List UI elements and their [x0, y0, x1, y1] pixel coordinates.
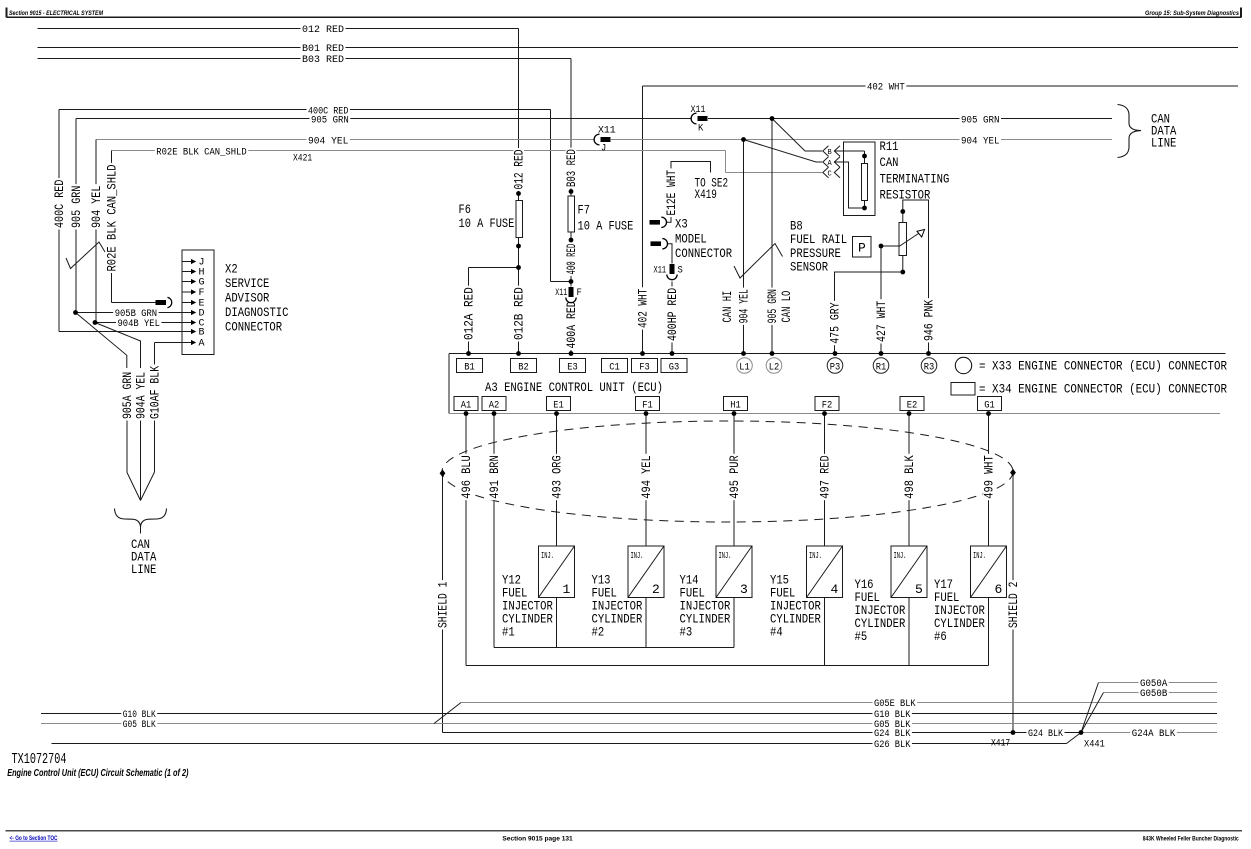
label 904 YEL right: [960, 136, 1002, 147]
injector Y15 box: [807, 546, 843, 598]
wire G05E diag: [434, 703, 461, 724]
svg-text:#3: #3: [680, 625, 693, 640]
wire 905 GRN: [76, 118, 1112, 120]
wire 904A YEL lower: [140, 419, 142, 500]
R11 resistor stub: [864, 201, 866, 209]
svg-text:F6: F6: [459, 202, 471, 217]
label 905 GRN right: [960, 115, 1002, 126]
wire 498 BLK: [908, 414, 910, 547]
vlabel 905 GRN: [71, 184, 82, 229]
wire E12E WHT / TO SE2: [667, 162, 711, 223]
svg-text:E2: E2: [907, 400, 918, 411]
svg-text:498 BLK: 498 BLK: [902, 455, 917, 499]
ECU pin box E3: [560, 359, 586, 373]
wire F7 chain: [570, 187, 572, 196]
label 904 YEL: [307, 136, 350, 147]
dot X441: [1079, 730, 1084, 735]
header rule: [7, 16, 1242, 18]
dot ECU bottom at 556.5: [554, 411, 559, 416]
vlabel B03 RED (above F7): [566, 148, 577, 189]
vlabel SHIELD 2: [1008, 580, 1019, 629]
svg-text:400C RED: 400C RED: [52, 179, 67, 228]
vlabel R02E BLK CAN_SHLD: [106, 163, 117, 273]
svg-text:R02E BLK CAN_SHLD: R02E BLK CAN_SHLD: [105, 164, 120, 271]
dot F7 top: [569, 189, 574, 194]
dot ECU top at 743.5: [741, 351, 746, 356]
dot ECU top at 642.5: [640, 351, 645, 356]
wire 494 YEL: [645, 414, 647, 547]
svg-text:X3: X3: [675, 217, 688, 232]
dot F7 bottom: [569, 238, 574, 243]
ECU pin circle R3: [921, 358, 937, 374]
ECU pin box C1: [602, 359, 628, 373]
dot ECU top at 518.5: [516, 351, 521, 356]
svg-text:Group 15: Sub-System Diagnosti: Group 15: Sub-System Diagnostics: [1145, 10, 1239, 17]
svg-text:L1: L1: [739, 362, 750, 373]
svg-text:905 GRN: 905 GRN: [961, 114, 1000, 126]
R11 pin C: [823, 167, 829, 178]
wire inj2 bottom: [645, 598, 647, 648]
svg-text:RESISTOR: RESISTOR: [880, 188, 931, 203]
svg-text:SHIELD 2: SHIELD 2: [1006, 582, 1021, 628]
vlabel 499 WHT: [983, 454, 994, 500]
svg-text:SENSOR: SENSOR: [790, 260, 828, 275]
B8 resistor: [899, 223, 907, 256]
connector X11 J: [594, 138, 611, 141]
svg-text:#1: #1: [502, 625, 515, 640]
wire X2-D 905B GRN: [76, 312, 193, 314]
B8 P box: [853, 237, 872, 258]
dashed cable ellipse: [442, 421, 1013, 522]
wire G05E BLK: [461, 702, 1217, 704]
cable mark middle: [734, 244, 783, 279]
ECU pin box H1: [724, 397, 748, 411]
ECU pin box F1: [636, 397, 660, 411]
ECU pin box G1: [978, 397, 1002, 411]
vlabel 400C RED: [54, 178, 65, 229]
injector Y14 box: [716, 546, 752, 598]
brace CAN DATA LINE left: [115, 509, 167, 528]
svg-text:INJ.: INJ.: [809, 551, 822, 561]
svg-text:INJ.: INJ.: [541, 551, 554, 561]
svg-text:B03 RED: B03 RED: [564, 149, 579, 187]
label G05E BLK right: [873, 699, 918, 710]
connector X11 S: [671, 264, 674, 281]
svg-text:LINE: LINE: [1151, 136, 1177, 151]
wire X2-B 400C: [59, 331, 192, 333]
svg-text:B: B: [828, 149, 832, 157]
fuse F7 body: [568, 196, 574, 232]
svg-text:5: 5: [915, 582, 923, 597]
dot R11 top: [862, 154, 867, 159]
dot ECU top at 881: [879, 351, 884, 356]
svg-text:904A YEL: 904A YEL: [134, 372, 149, 419]
label G24 BLK right: [873, 729, 912, 740]
svg-text:G1: G1: [984, 400, 995, 411]
svg-text:P3: P3: [830, 362, 841, 373]
wire 493 ORG: [556, 414, 558, 547]
fuse F6 body: [516, 201, 522, 238]
R11 pin A: [823, 157, 829, 168]
label G05 BLK left: [121, 720, 157, 731]
svg-text:SERVICE: SERVICE: [225, 276, 270, 291]
svg-text:4: 4: [831, 582, 839, 597]
B8 arrow: [899, 231, 923, 247]
ECU pin box A2: [482, 397, 506, 411]
svg-text:R3: R3: [924, 362, 935, 373]
wire X3 pin2 to X11 S: [668, 244, 673, 264]
label G24A BLK: [1130, 729, 1177, 740]
dot 905 junction: [770, 116, 775, 121]
label G050A: [1139, 679, 1169, 690]
ECU pin box E2: [900, 397, 924, 411]
svg-text:F: F: [577, 287, 582, 299]
shield1 diamond: [440, 470, 446, 478]
svg-text:LINE: LINE: [131, 562, 157, 577]
svg-text:A1: A1: [461, 400, 472, 411]
wire inj4 bottom: [824, 598, 826, 666]
svg-text:F7: F7: [578, 203, 590, 218]
R11 wire A internal: [835, 162, 865, 208]
svg-text:K: K: [698, 123, 704, 135]
svg-text:F: F: [199, 288, 205, 299]
wire X2-C 904B YEL: [95, 322, 192, 324]
legend X33 circle: [955, 357, 971, 373]
wire X2-A G10AF: [155, 342, 193, 344]
wire G24A BLK: [1081, 732, 1217, 734]
dot ECU bottom at 734: [732, 411, 737, 416]
svg-text:904 YEL: 904 YEL: [308, 135, 348, 147]
svg-text:H1: H1: [730, 400, 741, 411]
dot 904B junction: [93, 320, 98, 325]
svg-text:946 PNK: 946 PNK: [922, 300, 937, 341]
label 904B YEL: [116, 319, 161, 330]
svg-text:1: 1: [563, 582, 571, 597]
svg-text:#5: #5: [855, 629, 868, 644]
svg-text:X419: X419: [695, 187, 717, 202]
svg-text:499 WHT: 499 WHT: [982, 455, 997, 499]
dot F6 top: [516, 191, 521, 196]
ECU pin circle P3: [827, 358, 843, 374]
wire G10 BLK: [41, 713, 1217, 715]
wire 402 WHT top: [643, 85, 1239, 87]
svg-text:TX1072704: TX1072704: [12, 751, 67, 768]
ECU pin circle L2: [766, 358, 782, 374]
R11 box: [844, 142, 876, 216]
svg-text:904 YEL: 904 YEL: [961, 135, 1000, 147]
wire G26 BLK: [52, 743, 1067, 745]
wire 904A YEL diag: [95, 323, 141, 369]
ECU pin box G3: [661, 359, 687, 373]
injector Y17 box: [971, 546, 1007, 598]
label 905B GRN: [113, 309, 158, 320]
svg-text:905 GRN: 905 GRN: [765, 289, 780, 323]
connector X3 pin2: [651, 241, 662, 246]
label G050B: [1139, 689, 1169, 700]
header left tick: [6, 7, 8, 17]
svg-text:<- Go to Section TOC: <- Go to Section TOC: [10, 836, 59, 842]
ECU pin box E1: [547, 397, 571, 411]
svg-text:905 GRN: 905 GRN: [69, 186, 84, 228]
B8 wiper wire: [881, 245, 899, 247]
header right tick: [1240, 7, 1242, 17]
vlabel 493 ORG: [551, 454, 562, 500]
dot B8 top: [900, 209, 905, 214]
wire SHIELD 2: [1012, 473, 1014, 733]
ECU pin circle R1: [873, 358, 889, 374]
svg-text:012 RED: 012 RED: [302, 24, 344, 36]
svg-text:6: 6: [995, 582, 1003, 597]
wire G24 BLK: [443, 732, 1082, 734]
legend X34 rect: [951, 383, 975, 396]
dot ECU top at 928.5: [926, 351, 931, 356]
svg-text:INJ.: INJ.: [894, 551, 907, 561]
svg-text:L2: L2: [769, 362, 780, 373]
svg-text:C1: C1: [609, 362, 620, 373]
label 400C RED: [307, 106, 350, 117]
vlabel G10AF BLK: [149, 364, 160, 420]
svg-text:493 ORG: 493 ORG: [550, 455, 565, 498]
X2 pin arrows J-A: [182, 261, 192, 263]
svg-text:B1: B1: [464, 362, 475, 373]
ECU pin box F2: [815, 397, 839, 411]
ECU strip outline: [449, 353, 1226, 355]
dot 904 junction: [741, 137, 746, 142]
bus upper (A2): [494, 647, 734, 649]
svg-text:B03 RED: B03 RED: [302, 54, 344, 66]
svg-text:400HP RED: 400HP RED: [665, 288, 680, 341]
svg-text:INJ.: INJ.: [631, 551, 644, 561]
svg-text:R02E BLK CAN_SHLD: R02E BLK CAN_SHLD: [156, 147, 246, 159]
label 012 RED: [301, 25, 346, 36]
vlabel 497 RED: [819, 454, 830, 500]
svg-text:G3: G3: [669, 362, 680, 373]
svg-text:Section 9015 page 131: Section 9015 page 131: [502, 835, 573, 842]
wire 905A GRN diag: [76, 313, 127, 369]
svg-text:G24A BLK: G24A BLK: [1132, 728, 1176, 740]
ECU pin box B1: [457, 359, 483, 373]
svg-text:R1: R1: [876, 362, 887, 373]
label 905 GRN: [310, 115, 351, 126]
svg-text:Engine Control Unit (ECU) Circ: Engine Control Unit (ECU) Circuit Schema…: [7, 768, 188, 779]
vlabel 494 YEL: [641, 454, 652, 500]
svg-text:E12E WHT: E12E WHT: [664, 170, 679, 216]
cable mark left: [66, 242, 105, 269]
svg-text:012A RED: 012A RED: [462, 287, 477, 340]
B8 top wire: [903, 200, 929, 354]
svg-text:427 WHT: 427 WHT: [874, 301, 889, 342]
dot ECU bottom at 909: [907, 411, 912, 416]
svg-text:DIAGNOSTIC: DIAGNOSTIC: [225, 305, 289, 320]
dot 905B junction: [73, 310, 78, 315]
X2 box: [182, 250, 214, 355]
wire SHIELD 1: [442, 472, 444, 733]
svg-text:= X33 ENGINE CONNECTOR (ECU) C: = X33 ENGINE CONNECTOR (ECU) CONNECTOR: [979, 359, 1227, 374]
svg-text:X2: X2: [225, 262, 238, 277]
svg-text:904B YEL: 904B YEL: [118, 318, 160, 330]
wire 400C RED: [59, 109, 551, 111]
dot ECU top at 835: [833, 351, 838, 356]
injector Y16 box: [891, 546, 927, 598]
B8 bottom wire: [835, 256, 903, 354]
wire R11 A diag: [744, 140, 823, 163]
label G10 BLK right: [873, 710, 912, 721]
vlabel 905A GRN: [122, 370, 133, 420]
svg-text:012 RED: 012 RED: [512, 149, 527, 189]
dot ECU bottom at 824.5: [822, 411, 827, 416]
vlabel 427 WHT: [876, 299, 887, 343]
dot B8 wiper: [879, 244, 884, 249]
shield2 diamond: [1010, 469, 1016, 477]
svg-text:= X34 ENGINE CONNECTOR (ECU) C: = X34 ENGINE CONNECTOR (ECU) CONNECTOR: [979, 382, 1227, 397]
brace CAN DATA LINE right: [1118, 105, 1142, 158]
svg-text:A2: A2: [489, 400, 500, 411]
dot ECU bottom at 494: [492, 411, 497, 416]
R11 resistor: [862, 164, 868, 201]
vlabel 475 GRY: [829, 301, 840, 345]
svg-text:S: S: [678, 265, 683, 277]
svg-text:3: 3: [740, 582, 748, 597]
label B03 RED: [301, 55, 346, 66]
svg-text:CONNECTOR: CONNECTOR: [225, 319, 282, 334]
svg-text:497 RED: 497 RED: [818, 455, 833, 499]
svg-text:X11: X11: [555, 287, 567, 299]
svg-text:F2: F2: [822, 400, 833, 411]
svg-text:843K Wheeled Feller Buncher Di: 843K Wheeled Feller Buncher Diagnostic: [1143, 835, 1239, 842]
svg-text:905 GRN: 905 GRN: [311, 114, 349, 126]
svg-text:2: 2: [652, 582, 660, 597]
vlabel 904 YEL (L1): [738, 288, 749, 325]
dot X417: [1011, 730, 1016, 735]
X2 E connector symbol: [156, 300, 167, 305]
svg-text:CAN HI: CAN HI: [720, 291, 735, 323]
svg-text:400A RED: 400A RED: [564, 301, 579, 348]
svg-text:G050B: G050B: [1140, 688, 1167, 700]
svg-text:A3 ENGINE CONTROL UNIT (ECU): A3 ENGINE CONTROL UNIT (ECU): [485, 380, 663, 395]
svg-text:C: C: [828, 170, 832, 178]
label 402 WHT: [866, 82, 907, 93]
wire inj3 bottom: [733, 598, 735, 648]
vlabel 495 PUR: [729, 454, 740, 500]
vlabel 400 RED: [566, 242, 577, 276]
footer rule: [6, 830, 1242, 832]
wire 402 WHT to F3: [642, 285, 644, 354]
svg-text:#4: #4: [770, 625, 783, 640]
wire 491 BRN: [493, 414, 495, 648]
svg-text:MODEL: MODEL: [675, 231, 707, 246]
svg-text:#2: #2: [592, 625, 605, 640]
svg-text:TERMINATING: TERMINATING: [880, 171, 950, 186]
label R02E BLK CAN_SHLD: [155, 147, 248, 158]
wire 400HP RED: [671, 282, 673, 354]
ECU pin box A1: [454, 397, 478, 411]
wire X2-E (R02E to E pin): [112, 302, 157, 304]
wire G050B: [1081, 693, 1104, 733]
dot ECU top at 672: [670, 351, 675, 356]
svg-text:F3: F3: [639, 362, 650, 373]
svg-text:X417: X417: [991, 737, 1010, 749]
svg-text:F1: F1: [642, 400, 653, 411]
wire B03 RED: [38, 58, 572, 60]
wire 012 RED: [38, 28, 519, 30]
vlabel 012A RED: [463, 286, 474, 342]
svg-text:491 BRN: 491 BRN: [487, 455, 502, 498]
wire inj5 bottom: [908, 598, 910, 666]
dot F6 bottom: [516, 244, 521, 249]
svg-text:G24 BLK: G24 BLK: [1028, 728, 1064, 740]
ECU pin circle L1: [737, 358, 753, 374]
connector X11 F: [570, 287, 573, 304]
svg-text:B2: B2: [518, 362, 529, 373]
vlabel 946 PNK: [923, 298, 934, 342]
svg-text:X421: X421: [293, 153, 312, 165]
svg-text:INJ.: INJ.: [973, 551, 986, 561]
wire CAN LO 905 to L2: [771, 119, 773, 354]
svg-text:X11: X11: [598, 125, 616, 137]
svg-text:#6: #6: [934, 629, 947, 644]
svg-text:904 YEL: 904 YEL: [89, 186, 104, 228]
svg-text:G05 BLK: G05 BLK: [123, 719, 156, 731]
svg-text:402 WHT: 402 WHT: [636, 289, 651, 328]
wire inj6 bottom: [988, 598, 990, 666]
wire inj1 bottom: [556, 598, 558, 648]
dot ECU bottom at 988.5: [986, 411, 991, 416]
wire 012A RED branch: [469, 267, 519, 269]
dot 400C junction: [569, 279, 574, 284]
vlabel SHIELD 1: [437, 580, 448, 629]
svg-text:R11: R11: [880, 139, 899, 154]
R11 wire B internal: [835, 150, 865, 152]
connector X3 pin1: [650, 220, 661, 225]
wire 499 WHT: [988, 414, 990, 547]
svg-text:E1: E1: [553, 400, 564, 411]
wire F6 chain: [518, 190, 520, 201]
svg-text:904 YEL: 904 YEL: [737, 289, 752, 323]
wire 904 YEL: [96, 139, 1112, 141]
svg-text:10 A FUSE: 10 A FUSE: [459, 216, 515, 231]
svg-text:E3: E3: [567, 362, 578, 373]
dot ECU top at 772: [770, 351, 775, 356]
svg-text:CAN LO: CAN LO: [779, 291, 794, 323]
wire B01 RED: [38, 47, 1239, 49]
svg-text:ADVISOR: ADVISOR: [225, 291, 270, 306]
svg-text:SHIELD 1: SHIELD 1: [436, 581, 451, 628]
vlabel 012 RED (above F6): [513, 148, 524, 191]
label B01 RED: [301, 44, 346, 55]
svg-text:CONNECTOR: CONNECTOR: [675, 246, 732, 261]
vlabel 498 BLK: [904, 454, 915, 500]
wire G10AF BLK lower: [154, 419, 156, 472]
vlabel 400HP RED: [667, 286, 678, 342]
label G26 BLK right: [873, 740, 912, 751]
connector X11 K: [691, 117, 708, 120]
svg-text:G10AF BLK: G10AF BLK: [148, 366, 163, 419]
dot F6 junction: [516, 265, 521, 270]
svg-text:CAN: CAN: [880, 155, 899, 170]
vlabel 491 BRN: [489, 454, 500, 500]
svg-text:10 A FUSE: 10 A FUSE: [578, 219, 634, 234]
bus lower (A1): [466, 665, 989, 667]
vlabel 012B RED: [513, 286, 524, 342]
dot ECU top at 468.5: [466, 351, 471, 356]
wire 496 BLU: [465, 414, 467, 666]
label G24 BLK mid: [1027, 729, 1065, 740]
vlabel 904 YEL: [91, 184, 102, 229]
svg-text:B: B: [199, 328, 205, 339]
svg-text:400 RED: 400 RED: [564, 244, 579, 275]
svg-text:INJ.: INJ.: [719, 551, 732, 561]
injector Y12 box: [539, 546, 575, 598]
